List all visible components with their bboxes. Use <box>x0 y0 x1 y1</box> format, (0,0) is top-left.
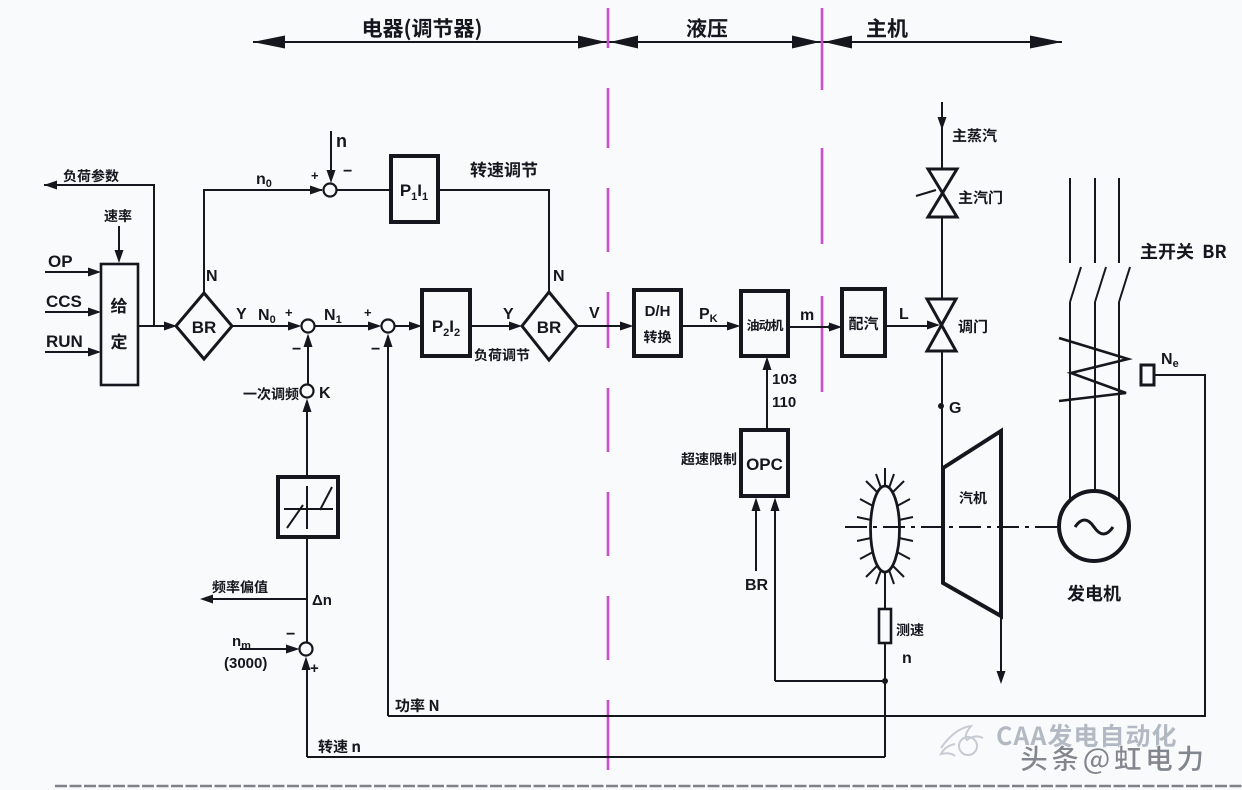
svg-text:m: m <box>800 307 814 324</box>
header label 主机 <box>867 18 908 38</box>
header divider arrow pair at x=608 <box>578 36 606 49</box>
circle K (droop gain) <box>301 385 314 398</box>
wire 功率 N feedback line <box>388 375 1205 716</box>
header label 电器(调节器) <box>364 18 481 40</box>
wire 测速 down to feedback <box>884 643 886 757</box>
svg-text:n: n <box>336 131 347 151</box>
svg-text:CCS: CCS <box>46 292 82 311</box>
svg-text:−: − <box>343 163 352 180</box>
wire nm input <box>240 648 288 650</box>
summing circle top (speed loop) <box>324 184 337 197</box>
svg-text:OP: OP <box>48 252 73 271</box>
label 速率 <box>104 209 131 222</box>
box D/H 转换 <box>634 290 681 356</box>
wire 负荷参数 tap <box>44 185 154 326</box>
label 一次调频 <box>244 387 299 400</box>
svg-text:+: + <box>311 168 319 183</box>
wire dead-band to bottom summer <box>306 537 308 642</box>
svg-text:RUN: RUN <box>46 332 83 351</box>
wire D/H to 油动机 <box>681 325 728 327</box>
header left arrowhead <box>253 36 285 49</box>
label 转速调节 <box>471 162 538 178</box>
label 主开关 BR <box>1141 243 1226 260</box>
svg-text:K: K <box>319 385 331 402</box>
box Ne transducer <box>1141 365 1154 385</box>
svg-text:Δn: Δn <box>312 592 332 609</box>
wire OP input <box>45 271 89 273</box>
label 调门 <box>959 319 987 333</box>
svg-text:Y: Y <box>236 306 247 323</box>
magenta boundary line 2 (x=822) <box>821 8 824 392</box>
svg-text:+: + <box>285 305 293 320</box>
label 频率偏值 <box>212 580 267 593</box>
svg-text:+: + <box>310 660 319 677</box>
svg-text:BR: BR <box>537 318 562 337</box>
wire summer1 to summer2 <box>315 325 371 327</box>
wire P1I1 to BR2 top <box>438 190 549 292</box>
label 功率 N <box>395 698 438 712</box>
box OPC <box>741 430 788 496</box>
wire BR1 top to n0 line <box>204 190 322 293</box>
wire BR2 to D/H <box>577 325 621 327</box>
header span line <box>253 41 1062 43</box>
box 油动机 (servomotor) <box>741 291 788 356</box>
wire n input down <box>330 131 332 172</box>
magenta boundary line 1 (x=608) <box>607 8 610 770</box>
label 负荷参数 <box>63 169 118 182</box>
label 负荷调节 <box>474 348 529 361</box>
generator circle <box>1059 491 1129 561</box>
svg-text:Y: Y <box>503 306 514 323</box>
junction node <box>882 678 888 684</box>
box P2I2 (load PI) <box>422 290 470 356</box>
turbine 汽机 <box>943 431 1001 616</box>
主汽门 lever <box>916 190 936 196</box>
header label 液压 <box>687 18 728 38</box>
wire BR1 Y to summer1 <box>232 325 290 327</box>
label 超速限制 <box>681 452 736 465</box>
wire sensor to 测速 <box>884 572 886 609</box>
sensor spikes <box>857 474 913 584</box>
label 测速 <box>896 623 923 636</box>
header divider arrow pair at x=822 <box>792 36 820 49</box>
wire 调门 to turbine <box>941 351 943 468</box>
svg-text:D/H: D/H <box>645 303 671 320</box>
box 给定 (setpoint) <box>101 264 138 385</box>
label 主汽门 <box>959 190 1002 204</box>
wire below K to dead-band box <box>306 411 308 477</box>
svg-text:−: − <box>371 341 380 358</box>
box P1I1 (speed PI) <box>391 156 438 222</box>
wire 配汽 to 调门 valve <box>885 325 928 327</box>
wire 转速 n feedback line <box>307 756 885 758</box>
three-phase line B <box>1095 178 1106 491</box>
wire main steam inlet <box>941 102 943 169</box>
sensor top stub <box>884 468 886 486</box>
wire summer2 to P2I2 <box>395 325 411 327</box>
header right arrowhead <box>1030 36 1062 49</box>
wire OPC output to 油动机 (103/110) <box>766 368 768 430</box>
svg-text:+: + <box>364 305 372 320</box>
svg-text:(3000): (3000) <box>224 655 267 672</box>
wire summer to P1I1 <box>337 189 392 191</box>
summing circle 1 <box>302 320 315 333</box>
wire between valves <box>941 217 943 299</box>
shaft dash-dot line <box>845 526 1059 528</box>
wire P2I2 to BR2 <box>470 325 510 327</box>
wire BR input to OPC <box>755 509 757 571</box>
svg-text:103: 103 <box>772 371 797 388</box>
svg-text:−: − <box>292 341 301 358</box>
box 测速 (speed pickup) <box>879 609 891 643</box>
label 转速 n <box>318 739 360 753</box>
svg-text:BR: BR <box>745 577 769 594</box>
label 发电机 <box>1067 585 1121 602</box>
three-phase line C <box>1119 178 1130 500</box>
label 主蒸汽 <box>953 128 997 142</box>
watermark bird logo <box>941 726 983 756</box>
valve 主汽门 (main stop valve) <box>928 169 957 193</box>
wire RUN input <box>45 351 89 353</box>
watermark 头条@虹电力 <box>1021 745 1202 774</box>
wire 频率偏值 tap <box>212 598 307 600</box>
wire power feedback up into summer2 <box>387 347 389 716</box>
svg-text:G: G <box>949 400 961 417</box>
summing circle bottom (frequency) <box>300 643 313 656</box>
svg-text:V: V <box>589 305 600 322</box>
node G <box>938 403 944 409</box>
wire speed signal to OPC <box>774 509 776 681</box>
three-phase line A <box>1070 178 1081 500</box>
diamond BR1 <box>176 293 232 359</box>
svg-text:−: − <box>286 626 295 643</box>
svg-text:L: L <box>899 306 909 323</box>
winding zigzag <box>1059 338 1128 401</box>
diamond BR2 <box>522 292 577 360</box>
wire CCS input <box>45 311 89 313</box>
wire 给定 to BR1 <box>138 325 165 327</box>
wire junction to OPC column <box>775 680 885 682</box>
svg-text:110: 110 <box>772 394 796 411</box>
dead-band box (frequency dead zone) <box>278 477 338 537</box>
svg-text:BR: BR <box>192 318 217 337</box>
valve 调门 (governor valve) <box>927 299 956 325</box>
svg-text:n: n <box>902 650 912 667</box>
svg-text:OPC: OPC <box>746 455 783 474</box>
wire 速率 input <box>118 226 120 252</box>
wire 油动机 to 配汽 <box>788 326 829 328</box>
box 配汽 (steam distribution) <box>842 289 885 356</box>
speed sensor toothed wheel <box>871 486 900 572</box>
watermark CAA发电自动化 <box>997 724 1175 748</box>
summing circle 2 <box>382 320 395 333</box>
wire turbine exhaust <box>1000 616 1002 673</box>
bottom dashed rule <box>55 785 1242 787</box>
wire K branch up into summer1 <box>307 347 309 385</box>
svg-text:N: N <box>206 268 218 285</box>
svg-text:N: N <box>553 268 565 285</box>
generator ~ symbol <box>1075 520 1113 534</box>
wire speed feedback up into bottom summer <box>306 670 308 757</box>
